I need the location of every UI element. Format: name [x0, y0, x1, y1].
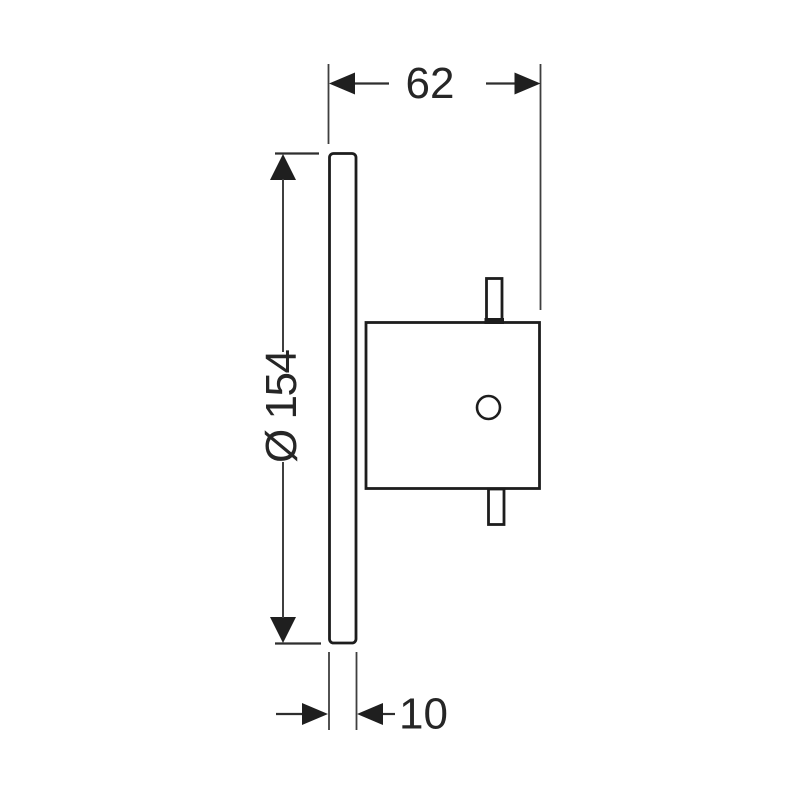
arrowhead 154 up [270, 154, 296, 180]
arrowhead 10 left [302, 703, 328, 725]
screw hole circle [477, 396, 500, 419]
bottom stub pin [489, 489, 505, 525]
extension line left (10 dim) [328, 652, 330, 730]
extension line right (62 dim) [540, 64, 542, 310]
dimension line 62 right tail [486, 82, 516, 84]
dimension line 154 upper segment [282, 179, 284, 352]
extension line left (62 dim) [328, 64, 330, 144]
faceplate (side view) [330, 154, 357, 644]
arrowhead 10 right [357, 703, 383, 725]
arrowhead 62 right [515, 73, 541, 95]
tick bottom (154 dim) [275, 642, 321, 644]
dimension line 10 right tail [383, 713, 395, 715]
extension line right (10 dim) [356, 652, 358, 730]
dimension line 62 left tail [353, 82, 389, 84]
svg-text:10: 10 [399, 690, 448, 739]
dimension line 154 lower segment [282, 462, 284, 618]
tick top (154 dim) [275, 152, 319, 154]
arrowhead 62 left [329, 73, 355, 95]
top stub pin [487, 279, 503, 323]
valve body [366, 323, 540, 489]
svg-text:Ø 154: Ø 154 [257, 349, 306, 463]
arrowhead 154 down [270, 617, 296, 643]
top pin junction band [485, 318, 505, 324]
svg-text:62: 62 [406, 59, 455, 108]
dimension line 10 left tail [276, 713, 304, 715]
